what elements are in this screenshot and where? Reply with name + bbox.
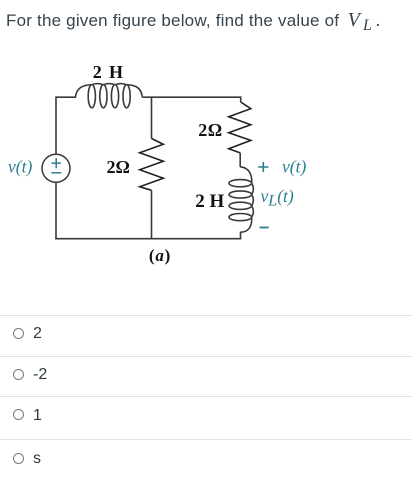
wire left lower bbox=[55, 182, 57, 239]
svg-text:2 H: 2 H bbox=[93, 62, 125, 82]
option separator line 4 bbox=[0, 439, 412, 440]
minus sign right bbox=[260, 227, 269, 229]
option separator line 3 bbox=[0, 396, 412, 397]
wire right top lead bbox=[240, 96, 242, 102]
option label 1 bbox=[33, 407, 42, 425]
inductor L2 2H (right coil) bbox=[229, 167, 253, 239]
wire top-left segment bbox=[56, 96, 76, 98]
option label -2 bbox=[33, 366, 47, 384]
wire right mid lead bbox=[239, 153, 241, 167]
wire middle top lead bbox=[151, 96, 153, 138]
option label s bbox=[33, 450, 41, 468]
svg-text:vL(t): vL(t) bbox=[261, 186, 294, 210]
resistor 2ohm right bbox=[229, 102, 251, 153]
wire top-right segment bbox=[142, 96, 241, 98]
svg-text:(a): (a) bbox=[149, 246, 171, 265]
svg-text:2Ω: 2Ω bbox=[106, 157, 129, 177]
plus sign right bbox=[258, 162, 268, 172]
wire middle bottom lead bbox=[151, 190, 153, 239]
question text bbox=[6, 9, 380, 32]
option radio 1 bbox=[13, 328, 24, 339]
wire bottom bbox=[55, 238, 241, 240]
option radio 2 bbox=[13, 369, 24, 380]
svg-text:2 H: 2 H bbox=[195, 191, 224, 212]
option separator line 1 bbox=[0, 315, 412, 316]
option separator line 2 bbox=[0, 356, 412, 357]
inductor L1 2H (top coil) bbox=[76, 84, 143, 108]
wire left upper bbox=[55, 96, 57, 154]
option radio 4 bbox=[13, 453, 24, 464]
option radio 3 bbox=[13, 409, 24, 420]
voltage source v(t) bbox=[42, 154, 70, 182]
svg-text:2Ω: 2Ω bbox=[198, 120, 222, 140]
resistor 2ohm middle bbox=[140, 139, 164, 191]
svg-text:v(t): v(t) bbox=[282, 157, 306, 177]
svg-text:v(t): v(t) bbox=[8, 157, 32, 177]
option label 2 bbox=[33, 325, 42, 343]
